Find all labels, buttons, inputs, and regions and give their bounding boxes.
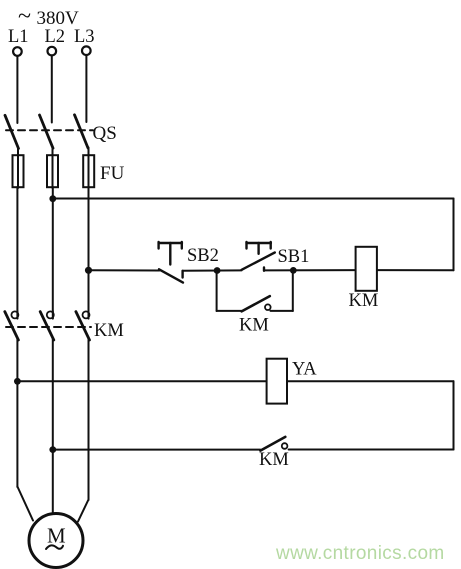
svg-text:L1: L1 [8, 27, 29, 47]
svg-text:KM: KM [239, 316, 269, 336]
svg-text:FU: FU [100, 163, 125, 184]
svg-text:KM: KM [259, 450, 289, 470]
svg-text:~: ~ [18, 4, 31, 30]
svg-text:KM: KM [94, 321, 124, 341]
svg-text:KM: KM [349, 291, 379, 311]
svg-text:YA: YA [292, 360, 317, 380]
svg-text:L2: L2 [45, 27, 66, 47]
svg-text:www.cntronics.com: www.cntronics.com [275, 543, 445, 564]
svg-text:M: M [47, 524, 66, 548]
svg-text:380V: 380V [37, 8, 80, 29]
svg-text:SB1: SB1 [278, 247, 310, 267]
svg-text:QS: QS [93, 123, 117, 144]
svg-text:SB2: SB2 [187, 246, 219, 266]
svg-text:L3: L3 [74, 27, 95, 47]
